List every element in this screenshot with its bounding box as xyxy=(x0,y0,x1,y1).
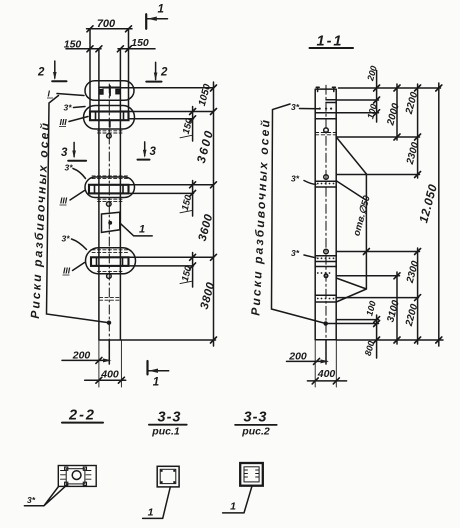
svg-text:1-1: 1-1 xyxy=(317,34,344,50)
svg-text:III: III xyxy=(60,196,68,206)
svg-text:3: 3 xyxy=(150,146,157,158)
svg-text:рис.2: рис.2 xyxy=(241,426,270,438)
svg-text:рис.1: рис.1 xyxy=(151,426,180,438)
svg-text:1: 1 xyxy=(230,501,236,513)
svg-text:150: 150 xyxy=(64,39,82,51)
svg-text:III: III xyxy=(63,266,71,276)
svg-text:200: 200 xyxy=(288,351,307,363)
svg-text:2: 2 xyxy=(37,67,45,79)
svg-text:2300: 2300 xyxy=(405,259,422,285)
svg-text:700: 700 xyxy=(97,18,116,30)
svg-text:1: 1 xyxy=(153,377,159,389)
svg-text:III: III xyxy=(60,117,68,127)
svg-text:3*: 3* xyxy=(291,248,300,258)
svg-text:1: 1 xyxy=(148,507,154,519)
svg-text:1: 1 xyxy=(158,4,164,16)
svg-text:3*: 3* xyxy=(64,103,73,113)
svg-text:12.050: 12.050 xyxy=(416,182,440,224)
svg-text:150: 150 xyxy=(131,37,149,49)
svg-text:100: 100 xyxy=(364,300,378,317)
svg-text:1: 1 xyxy=(139,224,145,236)
svg-text:3-3: 3-3 xyxy=(244,410,268,426)
svg-text:400: 400 xyxy=(317,368,336,380)
svg-text:3600: 3600 xyxy=(197,213,216,243)
svg-text:3: 3 xyxy=(61,147,68,159)
svg-text:2300: 2300 xyxy=(405,141,422,167)
svg-text:200: 200 xyxy=(72,350,91,362)
svg-text:800: 800 xyxy=(363,340,377,357)
svg-text:400: 400 xyxy=(100,369,119,381)
svg-text:3*: 3* xyxy=(291,102,300,112)
svg-text:3*: 3* xyxy=(291,174,300,184)
svg-text:1050: 1050 xyxy=(197,82,213,107)
svg-text:3*: 3* xyxy=(65,163,74,173)
svg-text:3800: 3800 xyxy=(199,281,218,311)
svg-text:3-3: 3-3 xyxy=(158,410,182,426)
svg-text:I: I xyxy=(48,89,51,99)
svg-text:2000: 2000 xyxy=(385,102,402,128)
svg-text:2-2: 2-2 xyxy=(68,408,96,424)
svg-text:3*: 3* xyxy=(27,495,36,505)
svg-text:2: 2 xyxy=(160,67,168,79)
svg-text:3100: 3100 xyxy=(385,299,401,324)
svg-text:Риски разбивочных осей: Риски разбивочных осей xyxy=(248,118,272,317)
svg-text:отв.∅50: отв.∅50 xyxy=(351,194,373,238)
svg-text:3*: 3* xyxy=(62,234,71,244)
svg-text:Риски разбивочных осей: Риски разбивочных осей xyxy=(28,121,52,320)
